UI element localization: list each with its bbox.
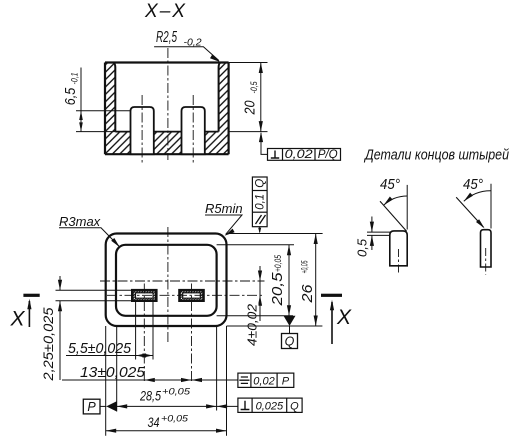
pin 2 (section) xyxy=(182,107,205,154)
dimension 20-0,5 extension lines xyxy=(229,63,268,132)
detail pin left centerline xyxy=(398,249,400,275)
pin 2 centerline xyxy=(192,95,194,163)
dimension 20,5 line and arrows xyxy=(288,245,290,316)
svg-text:+0,05: +0,05 xyxy=(162,387,191,397)
svg-text:26: 26 xyxy=(299,284,316,304)
svg-text:P: P xyxy=(87,400,96,414)
plan outer contour 34x26 xyxy=(106,234,227,327)
plan horizontal centerline xyxy=(100,280,265,282)
plan vertical centerline xyxy=(167,227,169,344)
svg-text:Детали концов штырей: Детали концов штырей xyxy=(363,148,509,164)
svg-text:20: 20 xyxy=(242,100,259,115)
detail pin left extension line xyxy=(406,185,408,230)
slot 2 (right pin hole) xyxy=(180,290,204,301)
detail pin left angle arc xyxy=(384,196,408,205)
cavity floor line xyxy=(115,131,218,133)
inner top edge extension (right) xyxy=(217,244,294,246)
detail pin right angle arc xyxy=(464,191,491,202)
detail pin left 45 deg chamfer line xyxy=(380,201,407,231)
dimension 6,5-0,1 line and arrows xyxy=(80,68,82,132)
dimension 5,5 line and arrows xyxy=(66,355,153,357)
section cutting plane mark left xyxy=(23,294,39,297)
svg-text:0,5: 0,5 xyxy=(355,238,370,257)
slot 1 centerline xyxy=(143,284,145,383)
dimension 6,5-0,1 extension lines xyxy=(76,111,131,132)
slot axis line (cutting plane) xyxy=(107,294,265,296)
dimension 20-0,5 line and arrows xyxy=(260,63,262,132)
outer bottom edge extension (right) xyxy=(227,325,323,327)
outer top edge extension (right) xyxy=(227,233,323,235)
svg-text:+0,05: +0,05 xyxy=(161,414,189,424)
datum Q triangle xyxy=(284,316,296,326)
leader to top surface xyxy=(259,227,261,232)
dimension 34 line and arrows xyxy=(106,430,227,432)
section cutting plane mark right xyxy=(321,294,342,297)
dimension 2,25 extension lines xyxy=(56,290,133,301)
svg-text:0,1: 0,1 xyxy=(255,194,267,210)
svg-text:4±0,02: 4±0,02 xyxy=(245,303,260,346)
svg-text:R2,5: R2,5 xyxy=(156,29,177,46)
svg-text:Q: Q xyxy=(290,401,299,413)
symmetry FCF 0,02 P xyxy=(238,373,294,387)
svg-text:13±0,025: 13±0,025 xyxy=(80,364,146,381)
pin 1 (section) xyxy=(131,107,154,154)
svg-text:0,02: 0,02 xyxy=(253,376,274,388)
dimension 0,5 line and arrows xyxy=(371,217,373,251)
detail pin right 45 deg leader with arrow xyxy=(456,197,483,227)
dimension 13 line, arrows, and symmetry FCF leader xyxy=(62,379,238,381)
svg-text:+0,05: +0,05 xyxy=(300,260,311,273)
inner bottom edge extension (right) xyxy=(217,315,293,317)
main vertical centerline (section) xyxy=(167,48,169,160)
svg-text:R5min: R5min xyxy=(205,201,243,216)
svg-text:34: 34 xyxy=(148,415,160,430)
svg-text:X: X xyxy=(336,306,352,329)
detail pin right xyxy=(481,230,492,267)
svg-text:28,5: 28,5 xyxy=(139,388,161,404)
svg-text:+0,05: +0,05 xyxy=(273,254,284,272)
dimension 2,25 line and arrows (outside) xyxy=(59,276,61,380)
svg-text:R3max: R3max xyxy=(59,214,101,229)
svg-text:-0,5: -0,5 xyxy=(249,81,260,94)
dimension 0,5 extension lines xyxy=(367,232,391,235)
extension lines below plan view xyxy=(106,301,227,436)
feature control frame perpendicularity 0,02 P/Q xyxy=(268,149,341,161)
detail pin left xyxy=(390,231,407,266)
svg-text:20,5: 20,5 xyxy=(269,272,286,307)
svg-text:P/Q: P/Q xyxy=(318,147,338,161)
svg-text:0,02: 0,02 xyxy=(285,147,313,161)
parallelism FCF vertical 0,1 Q xyxy=(252,177,267,227)
datum P triangle xyxy=(106,401,116,411)
datum Q box xyxy=(282,334,298,349)
section body hatched walls and floor xyxy=(105,63,229,155)
slot 2 centerline xyxy=(191,284,193,383)
plan inner contour 28,5x20,5 xyxy=(116,245,217,316)
svg-text:45°: 45° xyxy=(463,176,483,193)
svg-text:2,25±0,025: 2,25±0,025 xyxy=(40,307,56,381)
dimension 26 line and arrows xyxy=(315,234,317,327)
perpendicularity FCF 0,025 Q xyxy=(238,398,302,412)
slot 1 (left pin hole) xyxy=(132,290,156,301)
svg-text:X: X xyxy=(10,308,26,331)
svg-text:0,025: 0,025 xyxy=(256,401,284,413)
dimension 28,5 line, arrows, and perpendicularity FCF leader xyxy=(117,405,238,407)
svg-text:X–X: X–X xyxy=(144,1,187,22)
svg-text:P: P xyxy=(282,376,290,388)
detail pin right centerline xyxy=(485,248,487,275)
svg-text:5,5±0,025: 5,5±0,025 xyxy=(68,340,132,357)
pin 1 centerline xyxy=(141,95,143,163)
leader of FCF to floor surface xyxy=(261,133,268,154)
svg-text:-0,1: -0,1 xyxy=(69,73,80,85)
svg-text:6,5: 6,5 xyxy=(62,87,79,105)
dimension 4 line and arrows (outside) xyxy=(259,266,261,321)
cavity inner walls xyxy=(113,63,220,132)
detail pin right extension line xyxy=(490,184,492,229)
svg-text:Q: Q xyxy=(285,335,295,349)
dimension 4 text xyxy=(245,302,259,347)
svg-text:45°: 45° xyxy=(380,176,400,193)
datum P box xyxy=(83,399,100,414)
svg-text:Q: Q xyxy=(255,179,267,188)
section outer outline xyxy=(105,63,229,155)
